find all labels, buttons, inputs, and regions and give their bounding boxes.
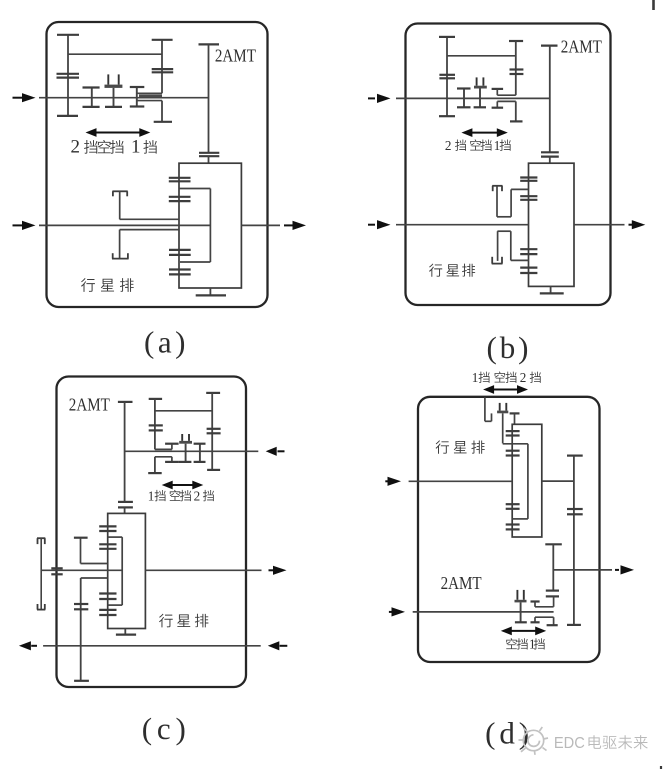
svg-text:(c): (c) <box>142 711 186 746</box>
svg-text:2: 2 <box>520 370 527 385</box>
planet mesh pair 4 (a) <box>169 268 191 270</box>
svg-text:2AMT: 2AMT <box>215 46 256 66</box>
1st-gear dog clutch (d) <box>531 600 540 602</box>
synchronizer fork (d) <box>516 590 518 600</box>
output gear column (c) <box>80 578 82 681</box>
planet mesh pair 3 (c) <box>99 592 116 594</box>
output arrow (d) <box>615 569 619 571</box>
pto arrow left (c) <box>19 641 31 650</box>
planet mesh pair 4 (d) <box>506 523 520 525</box>
svg-text:2: 2 <box>445 138 452 153</box>
synchronizer fork (b) <box>476 77 478 85</box>
mesh to planetary sun (b) <box>541 151 559 153</box>
svg-text:(b): (b) <box>487 330 529 365</box>
planet-ring frame (a) <box>179 163 241 288</box>
countershaft link (a) <box>68 53 162 55</box>
svg-text:EDC: EDC <box>554 735 585 752</box>
planet mesh pair 2 (b) <box>520 195 537 197</box>
shift range double arrow (c) <box>171 484 195 486</box>
1st-gear sleeve I (a) <box>136 87 138 107</box>
ground stub (a) <box>209 288 211 295</box>
diagram (d) housing box <box>418 397 600 662</box>
input shaft 2 (b) <box>396 224 529 226</box>
countershaft link (b) <box>447 55 516 57</box>
planet mesh pair 2 (a) <box>169 196 191 198</box>
input shaft 1 (a) <box>39 97 209 99</box>
shift range double arrow (d) top <box>492 389 519 391</box>
planet-ring frame (c) <box>108 513 146 628</box>
1st-gear dog-clutch arms (a) <box>137 92 162 94</box>
page corner mark bottom-right <box>660 766 662 769</box>
pto line bottom (c) <box>43 645 261 647</box>
gear pair G1 (b) left column <box>446 37 448 116</box>
2AMT output gear column (a) <box>199 43 220 45</box>
output arrow (b) <box>629 224 633 226</box>
shift range double arrow (b) <box>470 132 498 134</box>
planet-ring frame (d) <box>512 424 542 537</box>
label xing-xing-pai (a) <box>81 278 95 292</box>
gear pair G2 (b) right column <box>509 40 523 42</box>
1st-gear hub line (a) <box>139 94 162 97</box>
label kong-dang 1-dang (d) <box>506 638 517 649</box>
label xing-xing-pai (b) <box>429 264 442 277</box>
upper clutch element (b) <box>492 185 502 187</box>
sun link rectangle (c) <box>108 536 123 538</box>
synchronizer fork (c) <box>181 434 183 441</box>
shift range double arrow (d) bottom <box>510 630 537 632</box>
mesh to planetary sun (c) <box>118 501 133 503</box>
gear pair G2 (c) right column <box>206 392 220 394</box>
2AMT gear column (d) <box>545 543 562 545</box>
svg-text:2: 2 <box>71 137 81 158</box>
pto arrow right (c) <box>268 641 280 650</box>
svg-text:1: 1 <box>494 138 501 153</box>
planet mesh pair 3 (d) <box>506 503 520 505</box>
input shaft 1 (b) <box>396 97 550 99</box>
diagram (a) housing box <box>47 22 268 307</box>
planet mesh pair 4 (c) <box>99 609 116 611</box>
planet mesh pair 1 (b) <box>520 176 537 178</box>
sun link rectangle (a) <box>179 188 210 190</box>
planet mesh pair 4 (b) <box>520 267 537 269</box>
label xing-xing-pai (d) <box>436 440 449 453</box>
input arrow 1 (a) top <box>13 97 24 99</box>
ground stub (b) <box>550 286 552 293</box>
output shaft (d) <box>553 569 612 571</box>
svg-text:(a): (a) <box>144 325 186 360</box>
shift range double arrow (a) <box>95 132 142 134</box>
input arrow 1 (c) from right <box>266 447 277 456</box>
planet mesh pair 2 (d) <box>506 450 520 452</box>
output arrow (a) <box>284 224 293 226</box>
mesh to planetary sun (a) <box>199 152 219 154</box>
diagram (b) housing box <box>406 24 611 306</box>
svg-text:2AMT: 2AMT <box>561 37 602 57</box>
svg-text:1: 1 <box>131 137 141 158</box>
2nd-gear sleeve I (b) <box>463 89 465 108</box>
lower clutch element (b) <box>497 230 510 232</box>
2nd-gear sleeve I (c) <box>199 444 201 462</box>
countershaft link (c) <box>155 410 212 412</box>
carrier clutch on housing (d) <box>484 397 486 421</box>
input arrow 2 (a) lower <box>13 224 24 226</box>
svg-text:2AMT: 2AMT <box>441 573 482 593</box>
watermark logo <box>519 727 549 755</box>
svg-text:2AMT: 2AMT <box>69 394 110 414</box>
shaft mesh marks (c) <box>51 567 62 569</box>
planet mesh pair 3 (a) <box>169 249 191 251</box>
gear mesh pair (d) <box>546 589 559 591</box>
gear pair G2 (a) right gear column <box>152 39 173 41</box>
output shaft (b) <box>574 224 625 226</box>
big gear column (d) <box>567 455 583 457</box>
planet mesh pair 1 (c) <box>99 525 116 527</box>
mid shaft (d) <box>542 480 574 482</box>
input arrow 2 (d) <box>389 611 394 613</box>
planet mesh pair 1 (d) <box>506 430 520 432</box>
2AMT output gear column (c) <box>118 401 133 403</box>
2AMT output gear column (b) <box>541 44 558 46</box>
2nd-gear sleeve I (a) <box>91 88 93 107</box>
carrier lines (a) <box>120 218 179 220</box>
input arrow 2 (b) <box>368 224 375 226</box>
output shaft (c) <box>145 569 261 571</box>
input shaft 1 (c) <box>125 450 259 452</box>
svg-text:(d): (d) <box>485 716 529 751</box>
carrier column (c) <box>74 537 88 539</box>
svg-text:1: 1 <box>148 488 155 503</box>
gear pair G1 (c) left column with dog clutch <box>149 398 162 400</box>
1st-gear dog clutch (b) <box>492 88 504 90</box>
1st-gear dog clutch (c) <box>165 443 179 445</box>
sun link rectangle (d) <box>503 443 528 445</box>
input shaft 2 (d) <box>413 611 554 613</box>
input arrow 1 (d) <box>385 480 389 482</box>
gear pair G1 (a) left input gear column <box>67 35 69 116</box>
svg-text:2: 2 <box>194 488 201 503</box>
output arrow (c) <box>269 569 275 571</box>
ground stub (c) <box>124 629 126 635</box>
svg-text:1: 1 <box>472 370 479 385</box>
diagram (c) housing box <box>57 377 247 688</box>
output shaft (a) <box>241 224 280 226</box>
main shaft 2 (c) <box>41 569 122 571</box>
outboard clutch element (c) <box>37 537 45 539</box>
synchronizer fork (a) <box>107 74 109 84</box>
page corner mark top-right <box>652 0 655 10</box>
planet mesh pair 3 (b) <box>520 248 537 250</box>
input shaft 1 (d) <box>409 480 513 482</box>
carrier clutch element (a) <box>112 190 127 192</box>
input arrow 1 (b) <box>368 97 375 99</box>
planet-ring frame (b) <box>529 163 575 286</box>
planet mesh pair 1 (a) <box>169 177 191 179</box>
input shaft 2 (a) <box>39 224 210 226</box>
label xing-xing-pai (c) <box>159 614 173 628</box>
planet mesh pair 2 (c) <box>99 543 116 545</box>
